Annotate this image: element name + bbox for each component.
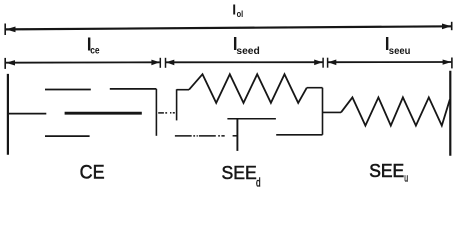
svg-text:l: l	[232, 1, 236, 17]
svg-text:SEE: SEE	[369, 160, 404, 181]
svg-text:u: u	[404, 173, 408, 185]
svg-text:ol: ol	[237, 9, 244, 20]
svg-text:seeu: seeu	[389, 46, 411, 57]
svg-text:ce: ce	[90, 45, 100, 56]
svg-text:seed: seed	[236, 46, 259, 57]
svg-text:d: d	[256, 177, 261, 189]
svg-text:CE: CE	[80, 162, 105, 183]
svg-text:SEE: SEE	[222, 163, 257, 183]
